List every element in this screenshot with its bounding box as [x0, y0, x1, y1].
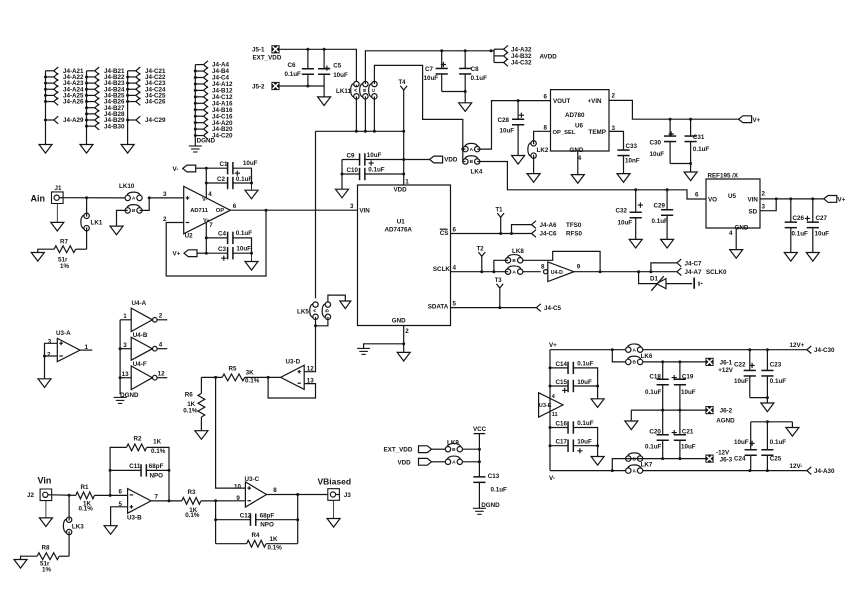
svg-text:LK3: LK3	[72, 523, 84, 530]
wire LK8 riser	[494, 260, 508, 271]
svg-text:12: 12	[158, 371, 165, 378]
connector pin J4-A24	[46, 88, 54, 90]
ground	[625, 421, 638, 430]
svg-text:J4-C20: J4-C20	[212, 133, 233, 140]
wire	[95, 494, 128, 496]
svg-text:0.1uF: 0.1uF	[491, 487, 508, 494]
svg-text:1: 1	[123, 313, 127, 320]
svg-text:J4-C7: J4-C7	[685, 260, 703, 267]
wire V+ rail	[550, 349, 626, 351]
svg-text:A: A	[512, 269, 516, 275]
svg-text:C24: C24	[734, 456, 746, 463]
connector pin J4-B29	[87, 119, 95, 121]
wire V+ left bus	[549, 350, 551, 471]
svg-text:6: 6	[695, 191, 699, 198]
svg-text:OP: OP	[216, 208, 225, 214]
wire AGND rail	[631, 409, 705, 411]
svg-text:C23: C23	[770, 362, 782, 369]
wire	[597, 386, 599, 399]
wire U2 feedback	[166, 210, 266, 276]
svg-text:C7: C7	[425, 66, 434, 73]
svg-text:T4: T4	[399, 80, 407, 86]
svg-text:9: 9	[236, 495, 240, 502]
svg-text:3: 3	[350, 203, 354, 210]
ground	[39, 518, 52, 527]
svg-text:J4-A29: J4-A29	[63, 117, 84, 124]
svg-text:VO: VO	[708, 196, 717, 203]
op-amp U2 AD711	[184, 186, 231, 233]
svg-text:10uF: 10uF	[367, 152, 382, 159]
svg-text:U4-F: U4-F	[133, 361, 147, 368]
ground	[31, 253, 44, 262]
svg-text:10uF: 10uF	[681, 444, 696, 451]
svg-text:11: 11	[552, 412, 558, 418]
wire VCC node	[463, 448, 480, 450]
svg-text:J4-C5: J4-C5	[544, 305, 562, 312]
svg-text:C17: C17	[556, 439, 568, 446]
connector pin J4-B21	[87, 70, 95, 72]
svg-text:1: 1	[405, 178, 409, 185]
ground DGND	[114, 396, 127, 398]
svg-text:12V+: 12V+	[790, 342, 805, 349]
ground	[761, 403, 774, 412]
jumper LK7-B	[626, 456, 631, 461]
wire U3-B output	[151, 500, 182, 502]
svg-text:AGND: AGND	[716, 417, 735, 424]
wire LK5-B top	[328, 295, 345, 302]
svg-text:C31: C31	[693, 134, 705, 141]
connector pin J4-C22	[128, 76, 136, 78]
svg-text:Ain: Ain	[31, 194, 46, 204]
ground	[336, 189, 349, 198]
svg-text:J4-C30: J4-C30	[814, 347, 835, 354]
wire to U1 pin 1	[403, 160, 405, 186]
svg-text:AD711: AD711	[190, 208, 209, 214]
op-amp U6 AD780	[551, 90, 610, 151]
svg-text:0.1uF: 0.1uF	[693, 146, 710, 153]
connector pin J4-B16	[195, 109, 203, 111]
wire U3-B plus input	[111, 507, 128, 526]
svg-text:J5-1: J5-1	[252, 47, 265, 54]
svg-text:T2: T2	[477, 247, 485, 253]
ground	[80, 145, 93, 154]
connector pin J4-C20	[195, 135, 203, 137]
jumper LK5-B	[325, 302, 330, 307]
svg-text:C8: C8	[471, 66, 480, 73]
wire U1 GND	[403, 326, 405, 344]
svg-text:10uF: 10uF	[424, 75, 439, 82]
svg-text:2: 2	[762, 191, 766, 198]
ground	[14, 560, 27, 569]
connector pin J4-B28	[87, 113, 95, 115]
ground	[327, 519, 340, 528]
svg-text:10uF: 10uF	[236, 246, 251, 253]
wire	[597, 446, 599, 457]
svg-text:0.1uF: 0.1uF	[236, 176, 253, 183]
svg-text:NPO: NPO	[260, 521, 274, 528]
svg-text:B: B	[362, 88, 368, 92]
svg-text:C28: C28	[498, 117, 510, 124]
svg-text:J4-B30: J4-B30	[104, 123, 125, 130]
svg-text:0.1%: 0.1%	[245, 378, 260, 385]
ground	[51, 222, 64, 231]
wire	[251, 253, 253, 261]
connector pin J4-A32	[504, 45, 508, 53]
wire	[512, 225, 532, 234]
jumper LK9-B	[445, 447, 450, 452]
svg-text:0.1uF: 0.1uF	[645, 444, 662, 451]
ground	[39, 145, 52, 154]
connector pin J4-B22	[87, 76, 95, 78]
jumper LK11-A	[354, 81, 359, 86]
ground	[661, 239, 674, 248]
wire	[201, 376, 222, 378]
svg-text:VDD: VDD	[444, 156, 458, 163]
ground	[512, 156, 525, 165]
svg-text:V-: V-	[173, 166, 179, 173]
svg-text:R6: R6	[185, 391, 194, 398]
jumper LK6-A	[626, 347, 631, 352]
connector pin J4-C4	[195, 77, 203, 79]
connector J6-2	[705, 406, 713, 414]
svg-text:T1: T1	[496, 208, 504, 214]
wire VOUT	[518, 100, 550, 102]
svg-text:U5: U5	[728, 193, 737, 200]
connector pin J4-B27	[87, 107, 95, 109]
svg-text:NPO: NPO	[150, 472, 164, 479]
svg-text:GND: GND	[392, 317, 406, 324]
wire LK11 bottom bus	[355, 96, 357, 131]
svg-text:J4-A30: J4-A30	[814, 468, 835, 475]
power flag VDD	[404, 159, 430, 161]
svg-text:+12V: +12V	[718, 367, 734, 374]
svg-text:LK7: LK7	[641, 462, 653, 469]
wire U3-A inputs	[45, 343, 58, 356]
ground DGND	[357, 347, 370, 349]
svg-text:12: 12	[307, 365, 314, 372]
svg-text:SD: SD	[749, 208, 758, 215]
svg-text:U3-E: U3-E	[539, 403, 552, 409]
wire +12V internal	[643, 361, 706, 363]
svg-text:6: 6	[119, 489, 123, 496]
connector pin J4-C5	[536, 304, 540, 312]
wire U3-C output	[267, 494, 328, 496]
svg-text:8: 8	[273, 487, 277, 494]
jumper LK5-A	[313, 302, 318, 307]
wire C24/C25 top	[751, 421, 793, 423]
svg-text:5: 5	[453, 300, 457, 307]
wire U3-C feedback node	[215, 501, 217, 544]
wire U3-B feedback node	[110, 447, 126, 495]
wire U5 SD	[760, 199, 776, 211]
connector pin J4-A29	[46, 119, 54, 121]
svg-text:+VIN: +VIN	[588, 98, 603, 105]
svg-text:OP_SEL: OP_SEL	[553, 130, 576, 136]
svg-text:0.1uF: 0.1uF	[577, 360, 594, 367]
svg-text:6: 6	[544, 94, 548, 101]
svg-text:10uF: 10uF	[333, 72, 348, 79]
connector pin J4-A4	[195, 64, 203, 66]
svg-text:U6: U6	[575, 123, 584, 130]
svg-text:R1: R1	[81, 484, 90, 491]
svg-text:GND: GND	[570, 147, 584, 154]
connector pin J4-C12	[195, 96, 203, 98]
ground	[195, 431, 208, 440]
svg-text:68pF: 68pF	[260, 512, 275, 519]
connector pin J4-C6	[532, 230, 536, 238]
capacitor crystal stub	[693, 278, 695, 289]
svg-text:U1: U1	[397, 219, 406, 226]
wire	[442, 92, 466, 103]
svg-text:10uF: 10uF	[734, 378, 749, 385]
ground	[784, 253, 797, 262]
svg-text:LK11: LK11	[336, 88, 351, 95]
ground DGND	[473, 507, 486, 509]
svg-text:C30: C30	[650, 140, 662, 147]
svg-text:7: 7	[209, 222, 213, 229]
svg-text:10uF: 10uF	[734, 439, 749, 446]
jumper LK4-B	[463, 159, 468, 164]
connector pin J4-B25	[87, 94, 95, 96]
svg-text:J4-C29: J4-C29	[145, 117, 166, 124]
connector J5-2	[271, 82, 279, 90]
op-amp U1 AD7476A	[358, 185, 451, 326]
svg-text:10uF: 10uF	[681, 389, 696, 396]
connector pin J4-C25	[128, 94, 136, 96]
svg-text:J6-1: J6-1	[720, 359, 733, 366]
svg-text:AVDD: AVDD	[540, 53, 558, 60]
svg-text:B: B	[132, 208, 136, 214]
svg-text:Vin: Vin	[38, 476, 52, 486]
svg-text:R7: R7	[60, 238, 69, 245]
svg-text:A: A	[452, 460, 456, 466]
svg-text:A: A	[632, 468, 636, 474]
wire Ain line	[63, 197, 125, 199]
svg-text:LK4: LK4	[471, 168, 483, 175]
wire D1 branch	[639, 272, 657, 284]
svg-text:EXT_VDD: EXT_VDD	[253, 55, 282, 62]
ground	[806, 253, 819, 262]
svg-text:B: B	[632, 360, 636, 366]
svg-text:C: C	[371, 88, 377, 92]
wire LK5 bottom	[315, 317, 317, 326]
svg-text:4: 4	[208, 191, 212, 198]
wire	[333, 500, 335, 518]
svg-text:R3: R3	[188, 489, 197, 496]
svg-text:3: 3	[612, 125, 616, 132]
wire T4 to VDD node	[403, 131, 405, 159]
svg-text:0.1uF: 0.1uF	[236, 230, 253, 237]
jumper LK9-A	[445, 459, 450, 464]
wire	[86, 71, 88, 145]
svg-text:7: 7	[155, 494, 159, 501]
connector pin J4-A22	[46, 76, 54, 78]
svg-text:B: B	[324, 308, 330, 312]
wire	[432, 448, 446, 450]
svg-text:A: A	[632, 347, 636, 353]
svg-text:D1: D1	[650, 276, 659, 283]
jumper LK11-C	[372, 81, 377, 86]
connector pin J4-B4	[195, 70, 203, 72]
svg-text:A: A	[353, 88, 359, 92]
connector pin J4-A25	[46, 94, 54, 96]
ground	[318, 97, 331, 106]
svg-text:10nF: 10nF	[625, 158, 640, 165]
connector pin J4-B30	[87, 125, 95, 127]
ground	[571, 175, 584, 184]
svg-text:1K: 1K	[153, 439, 161, 446]
svg-text:6: 6	[233, 203, 237, 210]
svg-text:U3-C: U3-C	[245, 476, 260, 483]
wire V+ node	[197, 252, 206, 254]
svg-text:C14: C14	[556, 361, 568, 368]
wire	[279, 86, 324, 97]
wire U3-D feedback	[268, 377, 315, 398]
svg-text:C25: C25	[770, 456, 782, 463]
svg-text:9: 9	[577, 264, 581, 271]
wire SCLK out	[574, 271, 677, 273]
wire V- node	[196, 167, 207, 169]
wire U4 input bus	[119, 320, 121, 395]
svg-text:CS: CS	[440, 230, 449, 237]
ground	[340, 301, 351, 309]
svg-text:DGND: DGND	[197, 137, 216, 144]
ground	[245, 190, 258, 199]
connector J6-1	[705, 358, 713, 366]
svg-text:VIN: VIN	[748, 196, 759, 203]
svg-text:LK5: LK5	[297, 309, 309, 316]
power flag V+	[824, 196, 837, 203]
svg-text:J4-C6: J4-C6	[540, 231, 558, 238]
jumper LK6-B	[626, 359, 631, 364]
svg-text:J2: J2	[27, 492, 34, 499]
connector pin J4-B26	[87, 101, 95, 103]
svg-text:J4-C32: J4-C32	[511, 60, 532, 67]
svg-text:SCLK: SCLK	[433, 266, 451, 273]
ground	[397, 352, 410, 361]
svg-text:B: B	[512, 258, 516, 264]
svg-text:0.1%: 0.1%	[183, 407, 198, 414]
power flag V+	[739, 116, 752, 123]
wire	[523, 271, 541, 273]
wire U3-D output	[245, 376, 281, 378]
connector pin J4-A7	[677, 268, 681, 276]
svg-text:T3: T3	[495, 278, 503, 284]
ground	[786, 428, 799, 437]
wire	[45, 501, 47, 518]
svg-text:0.1uF: 0.1uF	[652, 218, 669, 225]
svg-text:10uF: 10uF	[650, 151, 665, 158]
svg-text:RFS0: RFS0	[566, 231, 583, 238]
svg-text:A: A	[132, 196, 136, 202]
wire U2 output	[230, 209, 357, 211]
svg-text:LK1: LK1	[91, 219, 103, 226]
connector pin J4-C21	[128, 70, 136, 72]
wire V- rail	[550, 470, 626, 472]
wire	[147, 447, 169, 501]
connector pin J4-B32	[504, 52, 508, 60]
svg-text:0.1%: 0.1%	[268, 545, 283, 552]
ground	[459, 103, 472, 112]
svg-text:V-: V-	[549, 475, 555, 482]
svg-text:0.1uF: 0.1uF	[792, 231, 809, 238]
connector pin J4-B12	[195, 89, 203, 91]
wire LK8 bypass	[523, 251, 600, 271]
svg-text:3: 3	[762, 203, 766, 210]
wire -12V internal	[626, 458, 706, 460]
svg-text:3: 3	[123, 342, 127, 349]
svg-text:VDD: VDD	[394, 186, 408, 193]
svg-text:SCLK0: SCLK0	[706, 269, 727, 276]
svg-text:VCC: VCC	[473, 426, 487, 433]
svg-text:VIN: VIN	[359, 208, 370, 215]
svg-text:C13: C13	[488, 473, 500, 480]
svg-text:13: 13	[122, 371, 129, 378]
connector pin J4-A23	[46, 82, 54, 84]
svg-text:A: A	[470, 147, 474, 153]
wire	[45, 71, 47, 145]
svg-text:EXT_VDD: EXT_VDD	[384, 447, 413, 454]
svg-text:J4-C26: J4-C26	[145, 99, 166, 106]
wire	[750, 398, 768, 403]
wire	[341, 160, 343, 190]
svg-text:0.1uF: 0.1uF	[471, 75, 488, 82]
svg-text:1K: 1K	[270, 536, 278, 543]
capacitor C27	[805, 216, 810, 221]
svg-text:C26: C26	[793, 215, 805, 222]
svg-text:TEMP: TEMP	[589, 129, 606, 136]
jumper LK8-A	[505, 269, 510, 274]
svg-text:U3-A: U3-A	[56, 330, 71, 337]
ground	[245, 262, 258, 271]
svg-text:R2: R2	[134, 435, 143, 442]
svg-text:U4-B: U4-B	[133, 332, 148, 339]
svg-text:U4-D: U4-D	[551, 270, 563, 276]
svg-text:J4-A26: J4-A26	[63, 99, 84, 106]
svg-text:VOUT: VOUT	[553, 98, 571, 105]
wire	[670, 164, 691, 173]
ground	[591, 457, 604, 466]
wire SCLK line	[451, 271, 509, 273]
ground	[38, 379, 51, 388]
svg-text:0.1uF: 0.1uF	[368, 167, 385, 174]
svg-text:10uF: 10uF	[243, 160, 258, 167]
svg-text:C1: C1	[220, 161, 229, 168]
connector pin J4-A26	[46, 101, 54, 103]
connector pin J4-A12	[195, 83, 203, 85]
wire LK7-B left	[612, 459, 625, 471]
svg-text:V+: V+	[838, 197, 846, 204]
svg-text:3: 3	[48, 339, 52, 346]
svg-text:J4-A7: J4-A7	[685, 269, 703, 276]
svg-text:LK10: LK10	[119, 183, 135, 190]
svg-text:SDATA: SDATA	[428, 304, 449, 311]
svg-text:C5: C5	[333, 63, 342, 70]
svg-text:V+: V+	[549, 342, 557, 349]
svg-text:J5-2: J5-2	[252, 83, 265, 90]
wire	[56, 204, 58, 223]
connector pin J4-B23	[87, 82, 95, 84]
svg-text:8: 8	[544, 125, 548, 132]
svg-text:U3-B: U3-B	[127, 515, 142, 522]
svg-text:LK2: LK2	[537, 147, 549, 154]
svg-text:C27: C27	[816, 215, 828, 222]
svg-text:1%: 1%	[60, 263, 69, 270]
svg-text:4: 4	[729, 230, 733, 237]
jumper LK8-B	[505, 258, 510, 263]
svg-text:6: 6	[453, 227, 457, 234]
svg-text:10uF: 10uF	[577, 439, 592, 446]
